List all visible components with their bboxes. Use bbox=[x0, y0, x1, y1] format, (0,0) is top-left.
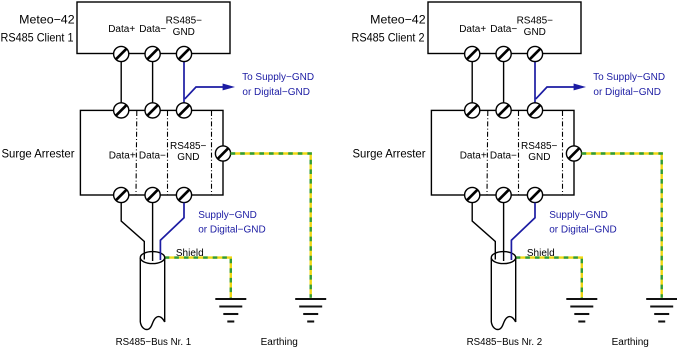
wire RS485-GND (Meteo to arrester 2, blue) bbox=[534, 54, 536, 110]
cable RS485 bus 2 (sheath) bbox=[491, 252, 515, 330]
svg-text:Data+: Data+ bbox=[108, 24, 135, 35]
terminal screw (arrester bottom Data+) bbox=[114, 187, 129, 202]
separator dash-dot 3 (2) bbox=[562, 111, 564, 195]
svg-text:RS485−Bus Nr. 2: RS485−Bus Nr. 2 bbox=[467, 337, 543, 348]
wire ends inside cable 2 bbox=[495, 252, 511, 261]
wire Data+ (Meteo to arrester 2) bbox=[471, 54, 473, 110]
svg-text:Data−: Data− bbox=[490, 150, 517, 161]
ground (shield 2) bbox=[566, 299, 597, 322]
ground (shield) bbox=[215, 299, 246, 322]
svg-text:RS485−: RS485− bbox=[517, 15, 554, 26]
wire RS485-GND (arrester 2 to cable, blue) bbox=[511, 203, 535, 260]
svg-text:GND: GND bbox=[524, 27, 546, 38]
terminal screw (Meteo 2 RS485-GND) bbox=[527, 46, 542, 61]
terminal screw (arrester 2 bottom Data+) bbox=[465, 187, 480, 202]
wire arrow to Supply-GND bbox=[185, 87, 224, 99]
terminal screw (arrester 2 bottom Data-) bbox=[496, 187, 511, 202]
separator dash-dot 1 bbox=[135, 111, 138, 195]
terminal screw (Meteo 2 Data+) bbox=[465, 46, 480, 61]
wire arrester earth 2 (green/yellow) bbox=[582, 154, 662, 298]
svg-text:Data−: Data− bbox=[490, 24, 517, 35]
wire Data- (Meteo to arrester) bbox=[152, 54, 154, 110]
svg-text:RS485−Bus Nr. 1: RS485−Bus Nr. 1 bbox=[116, 337, 192, 348]
svg-text:RS485−: RS485− bbox=[166, 15, 203, 26]
wire Data+ (Meteo to arrester) bbox=[120, 54, 122, 110]
svg-text:or Digital−GND: or Digital−GND bbox=[242, 87, 310, 98]
Meteo-42 device box U1 bbox=[77, 2, 230, 54]
terminal screw (Meteo RS485-GND) bbox=[176, 46, 191, 61]
svg-text:Surge Arrester: Surge Arrester bbox=[2, 146, 75, 160]
wire RS485-GND (Meteo to arrester, blue) bbox=[183, 54, 185, 110]
separator dash-dot 3 bbox=[211, 111, 213, 195]
wire Data- (Meteo to arrester 2) bbox=[503, 54, 505, 110]
svg-text:Data+: Data+ bbox=[460, 150, 487, 161]
terminal screw (Meteo Data-) bbox=[145, 46, 160, 61]
svg-text:RS485−: RS485− bbox=[521, 141, 558, 152]
separator dash-dot 1 (2) bbox=[486, 111, 489, 195]
svg-text:Data+: Data+ bbox=[109, 150, 136, 161]
svg-text:or Digital−GND: or Digital−GND bbox=[593, 87, 661, 98]
svg-text:or Digital−GND: or Digital−GND bbox=[198, 225, 266, 236]
svg-text:Earthing: Earthing bbox=[612, 337, 649, 348]
terminal screw (Meteo 2 Data-) bbox=[496, 46, 511, 61]
terminal screw (arrester 2 top RS485-GND) bbox=[527, 103, 542, 118]
terminal screw (arrester earth) bbox=[215, 146, 230, 161]
terminal screw (arrester bottom Data-) bbox=[145, 187, 160, 202]
wire RS485-GND (arrester to cable, blue) bbox=[160, 203, 184, 260]
wire Data+ (arrester to cable) bbox=[121, 203, 144, 259]
terminal screw (arrester 2 top Data-) bbox=[496, 103, 511, 118]
terminal screw (arrester bottom RS485-GND) bbox=[176, 187, 191, 202]
svg-text:Meteo−42: Meteo−42 bbox=[19, 13, 75, 27]
svg-text:GND: GND bbox=[173, 27, 195, 38]
svg-text:RS485−: RS485− bbox=[170, 141, 207, 152]
svg-text:or Digital−GND: or Digital−GND bbox=[549, 225, 617, 236]
svg-text:RS485 Client 1: RS485 Client 1 bbox=[1, 31, 74, 45]
wire Data+ (arrester 2 to cable) bbox=[472, 203, 495, 259]
ground (earthing 2) bbox=[646, 299, 677, 322]
svg-text:To Supply−GND: To Supply−GND bbox=[593, 72, 665, 83]
cable RS485 bus (sheath) bbox=[140, 252, 164, 330]
terminal screw (arrester 2 earth) bbox=[566, 146, 581, 161]
svg-text:Data+: Data+ bbox=[459, 24, 486, 35]
svg-text:Supply−GND: Supply−GND bbox=[198, 210, 257, 221]
svg-text:GND: GND bbox=[528, 152, 550, 163]
terminal screw (arrester 2 bottom RS485-GND) bbox=[527, 187, 542, 202]
terminal screw (arrester top Data+) bbox=[114, 103, 129, 118]
terminal screw (arrester top RS485-GND) bbox=[176, 103, 191, 118]
wire arrow to Supply-GND (2) bbox=[536, 87, 575, 99]
svg-text:To Supply−GND: To Supply−GND bbox=[242, 72, 314, 83]
svg-text:RS485 Client 2: RS485 Client 2 bbox=[352, 31, 425, 45]
Meteo-42 device box U2 bbox=[428, 2, 581, 54]
svg-text:Earthing: Earthing bbox=[261, 337, 298, 348]
surge arrester box F2 bbox=[431, 110, 574, 195]
svg-text:Data−: Data− bbox=[139, 150, 166, 161]
surge arrester box F1 bbox=[80, 110, 223, 195]
svg-text:Shield: Shield bbox=[527, 248, 555, 259]
svg-text:Surge Arrester: Surge Arrester bbox=[353, 146, 426, 160]
wire ends inside cable bbox=[144, 252, 160, 261]
wire Data- (arrester 2 to cable) bbox=[503, 203, 505, 261]
wire shield earth 2 (green/yellow) bbox=[516, 258, 582, 298]
svg-text:Meteo−42: Meteo−42 bbox=[370, 13, 426, 27]
svg-text:Data−: Data− bbox=[139, 24, 166, 35]
ground (earthing) bbox=[295, 299, 326, 322]
terminal screw (Meteo Data+) bbox=[114, 46, 129, 61]
separator dash-dot 2 (2) bbox=[518, 111, 520, 195]
wire arrester earth (green/yellow) bbox=[231, 154, 311, 298]
wire shield earth (green/yellow) bbox=[165, 258, 231, 298]
svg-text:GND: GND bbox=[177, 152, 199, 163]
separator dash-dot 2 bbox=[167, 111, 169, 195]
terminal screw (arrester top Data-) bbox=[145, 103, 160, 118]
terminal screw (arrester 2 top Data+) bbox=[465, 103, 480, 118]
wire Data- (arrester to cable) bbox=[152, 203, 154, 261]
svg-text:Supply−GND: Supply−GND bbox=[549, 210, 608, 221]
svg-text:Shield: Shield bbox=[176, 248, 204, 259]
